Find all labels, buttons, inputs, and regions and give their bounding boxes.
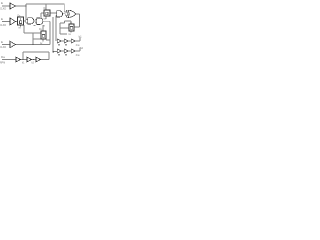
svg-text:RPM: RPM <box>0 63 5 65</box>
svg-text:CLKD: CLKD <box>0 9 6 11</box>
svg-text:CLKD: CLKD <box>0 47 6 49</box>
svg-text:CLKD: CLKD <box>0 25 6 27</box>
svg-text:Da: Da <box>1 55 5 59</box>
svg-text:b2: b2 <box>80 46 84 50</box>
svg-text:E: E <box>1 1 3 5</box>
svg-text:E: E <box>1 40 3 44</box>
svg-text:Ds: Ds <box>70 22 72 24</box>
svg-text:tw: tw <box>44 17 47 20</box>
svg-text:tw: tw <box>19 26 22 29</box>
svg-text:tw: tw <box>40 42 43 45</box>
svg-text:tw: tw <box>69 33 72 36</box>
svg-text:rbw: rbw <box>76 54 80 57</box>
svg-text:b1: b1 <box>79 34 83 38</box>
svg-text:E: E <box>1 17 3 21</box>
